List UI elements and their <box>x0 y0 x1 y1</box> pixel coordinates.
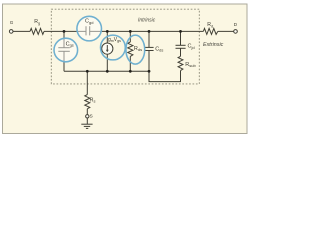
terminal G <box>9 30 13 34</box>
wire node A to Cgd <box>64 30 86 32</box>
svg-text:S: S <box>90 114 93 119</box>
outer frame <box>3 4 248 134</box>
svg-text:Rs: Rs <box>90 98 96 104</box>
node gm top <box>106 30 109 33</box>
current source arrow <box>106 45 108 51</box>
wire Cjd to Rsub <box>180 48 182 56</box>
wire gm branch lower <box>106 54 108 71</box>
resistor Rd <box>203 28 218 34</box>
svg-text:Cgs: Cgs <box>66 41 74 47</box>
wire Rsub return to bottom rail <box>149 71 181 82</box>
wire Cds branch lower <box>148 51 150 72</box>
node drain <box>179 30 182 33</box>
svg-text:Cjd: Cjd <box>188 44 195 50</box>
svg-text:Rsub: Rsub <box>185 62 196 68</box>
resistor Rds <box>128 42 133 56</box>
intrinsic dashed box <box>51 9 199 84</box>
wire Rd to D terminal <box>218 30 234 32</box>
wire drain branch upper <box>180 31 182 45</box>
wire Rds branch lower <box>129 56 131 71</box>
resistor Rsub <box>178 56 183 70</box>
svg-text:Extrinsic: Extrinsic <box>203 42 224 48</box>
wire S to ground <box>86 118 88 124</box>
node Rds top <box>129 30 132 33</box>
capacitor Cgd <box>85 26 87 35</box>
node gm bottom <box>106 70 109 73</box>
wire Rds branch upper <box>129 31 131 42</box>
resistor Rs <box>85 95 90 109</box>
svg-text:Rds: Rds <box>134 46 142 52</box>
svg-text:Intrinsic: Intrinsic <box>138 17 156 23</box>
node Cds bottom <box>148 70 151 73</box>
wire Cgs branch lower <box>63 51 65 71</box>
node Rs bottom <box>86 70 89 73</box>
svg-text:Cds: Cds <box>155 46 163 52</box>
terminal S <box>86 115 89 118</box>
capacitor Cjd <box>176 44 186 46</box>
resistor Rg <box>30 28 44 34</box>
svg-text:G: G <box>10 20 14 25</box>
current source gmVgs <box>102 43 113 54</box>
wire G to Rg <box>13 30 30 32</box>
wire Rs branch upper <box>86 71 88 94</box>
wire gm branch upper <box>106 31 108 43</box>
highlight circle Cgd <box>77 16 102 41</box>
wire Cgd to drain node (top wire) <box>90 30 204 32</box>
ground <box>81 123 92 125</box>
svg-text:Cgd: Cgd <box>85 19 93 25</box>
wire bottom rail <box>64 70 149 72</box>
wire Cgs branch upper <box>63 31 65 47</box>
terminal D <box>234 30 238 34</box>
node Rds bottom <box>129 70 132 73</box>
wire Rs to S terminal <box>86 109 88 115</box>
node A (gate) <box>63 30 66 33</box>
highlight circle Cgs <box>54 38 78 62</box>
wire Rg to node A <box>44 30 64 32</box>
node Cds top <box>148 30 151 33</box>
capacitor Cgs <box>58 47 70 49</box>
highlight circle gmVgs <box>101 35 126 60</box>
wire Cds branch upper <box>148 31 150 47</box>
highlight ellipse Rds <box>126 35 145 64</box>
capacitor Cds <box>144 46 153 48</box>
